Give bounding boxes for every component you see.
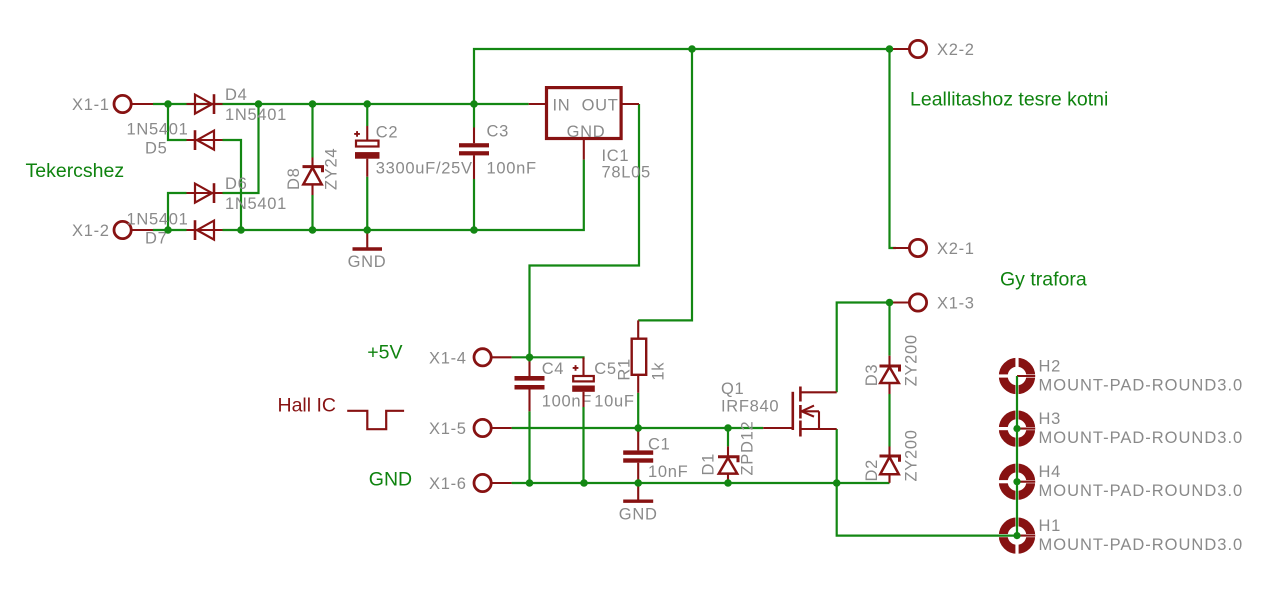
svg-text:ZY24: ZY24 (323, 148, 341, 190)
svg-text:10nF: 10nF (648, 463, 688, 481)
wire X1-1 row to IC IN (153, 103, 529, 105)
svg-text:D7: D7 (145, 230, 168, 248)
wire gate row (512, 427, 764, 429)
svg-text:ZY200: ZY200 (903, 334, 921, 386)
pad X2-1 (893, 239, 927, 256)
svg-text:IRF840: IRF840 (721, 398, 779, 416)
node X1-2 junction (164, 226, 172, 234)
zener D2 ZY200 (880, 447, 900, 483)
zener D1 ZPD12 (718, 446, 738, 483)
svg-text:X1-6: X1-6 (429, 475, 467, 493)
wire D6 cathode up to top row (223, 104, 259, 193)
wire top rail to R1 (638, 49, 692, 320)
wire C2 top (366, 104, 368, 126)
zener D3 ZY200 (880, 356, 900, 394)
wire H2-H1 column (1016, 376, 1018, 536)
svg-text:D8: D8 (285, 168, 303, 191)
svg-text:3300uF/25V: 3300uF/25V (376, 160, 473, 178)
node D5 anode junction (237, 226, 245, 234)
svg-text:IC1: IC1 (602, 147, 630, 165)
svg-text:100nF: 100nF (487, 160, 537, 178)
wire source to H1 (837, 483, 1017, 536)
wire D3 to D2 (888, 394, 890, 447)
node R1 bottom junction (634, 424, 642, 432)
svg-text:MOUNT-PAD-ROUND3.0: MOUNT-PAD-ROUND3.0 (1039, 536, 1244, 554)
svg-text:GND: GND (369, 469, 412, 491)
svg-text:C5: C5 (594, 360, 617, 378)
ground symbol under C2 (353, 230, 383, 249)
mount pad H3 (998, 409, 1036, 447)
capacitor C1 10nF (623, 430, 653, 483)
pad X2-2 (890, 40, 927, 57)
capacitor C3 100nF (459, 128, 489, 180)
node D4 cathode junction (255, 100, 263, 108)
wire C3 bottom (473, 179, 475, 230)
svg-text:ZPD12: ZPD12 (739, 421, 757, 476)
wire D3 top (888, 303, 890, 356)
svg-text:ZY200: ZY200 (903, 429, 921, 481)
svg-text:OUT: OUT (582, 97, 619, 115)
node D8 bottom junction (309, 226, 317, 234)
svg-text:1N5401: 1N5401 (225, 195, 287, 213)
node H3 center junction (1013, 425, 1020, 432)
svg-text:C4: C4 (542, 360, 565, 378)
pulse waveform symbol (347, 411, 404, 429)
pad X1-1 (114, 95, 153, 112)
svg-text:D5: D5 (145, 140, 168, 158)
wire bottom rail right of D7 to IC GND (223, 160, 584, 230)
svg-text:X2-2: X2-2 (937, 41, 975, 59)
svg-text:78L05: 78L05 (602, 164, 651, 182)
svg-text:H1: H1 (1039, 517, 1062, 535)
svg-text:D1: D1 (700, 453, 718, 476)
svg-text:1N5401: 1N5401 (127, 211, 189, 229)
IC1 78L05 box (529, 88, 639, 160)
resistor R1 1k (632, 320, 647, 392)
node source junction (833, 479, 841, 487)
svg-text:X1-2: X1-2 (72, 222, 110, 240)
mount pad H4 (998, 463, 1036, 501)
svg-text:D6: D6 (225, 175, 248, 193)
node C2 top junction (363, 100, 371, 108)
wire C4 top (528, 357, 530, 362)
svg-text:GND: GND (567, 123, 606, 141)
svg-text:H3: H3 (1039, 410, 1062, 428)
node D8 top junction (309, 100, 317, 108)
wire X1-1 to D5 jog (168, 104, 187, 140)
wire C3 top (473, 104, 475, 128)
svg-text:X1-3: X1-3 (937, 295, 975, 313)
svg-text:1N5401: 1N5401 (127, 121, 189, 139)
svg-text:Gy trafora: Gy trafora (1000, 269, 1087, 291)
wire D8 bottom (311, 195, 313, 230)
svg-text:X1-1: X1-1 (72, 96, 110, 114)
diode D7 1N5401 (points left) (187, 220, 223, 240)
svg-text:H4: H4 (1039, 463, 1062, 481)
node C2 bottom junction (363, 226, 371, 234)
node top rail R1 branch (688, 45, 696, 53)
svg-text:X1-4: X1-4 (429, 350, 467, 368)
svg-text:MOUNT-PAD-ROUND3.0: MOUNT-PAD-ROUND3.0 (1039, 482, 1244, 500)
svg-text:Tekercshez: Tekercshez (26, 160, 125, 182)
svg-text:Leallitashoz tesre kotni: Leallitashoz tesre kotni (910, 89, 1108, 111)
wire D1 top (727, 428, 729, 446)
pad X1-6 (474, 474, 512, 491)
node D1 top junction (724, 424, 732, 432)
zener D8 ZY24 (303, 158, 323, 196)
wire top rail (474, 49, 890, 104)
svg-text:MOUNT-PAD-ROUND3.0: MOUNT-PAD-ROUND3.0 (1039, 376, 1244, 394)
transistor Q1 IRF840 (763, 387, 837, 437)
node top rail X2 branch (886, 45, 894, 53)
svg-text:D3: D3 (863, 364, 881, 387)
wire GND row (512, 482, 890, 484)
node H1 center junction (1013, 532, 1020, 539)
node H4 center junction (1013, 478, 1020, 485)
capacitor C5 10uF (polarized) (572, 358, 595, 408)
wire C1 top (637, 428, 639, 432)
svg-text:1k: 1k (650, 362, 668, 381)
svg-text:C3: C3 (487, 123, 510, 141)
svg-text:H2: H2 (1039, 358, 1062, 376)
wire D5 anode down to bottom rail (223, 140, 242, 230)
diode D4 1N5401 (187, 94, 223, 114)
wire R1 bottom to gate row (637, 393, 639, 428)
wire X2-1 drop (890, 49, 897, 248)
svg-text:GND: GND (619, 506, 658, 524)
mount pad H1 (998, 516, 1036, 554)
diode D6 1N5401 (187, 183, 223, 203)
capacitor C2 3300uF/25V (polarized) (354, 126, 379, 177)
svg-text:X1-5: X1-5 (429, 420, 467, 438)
wire source down (836, 429, 838, 483)
pad X1-5 (474, 419, 512, 436)
pad X1-3 (893, 294, 927, 311)
svg-text:C2: C2 (376, 124, 399, 142)
wire drain up to X1-3 (837, 303, 890, 393)
svg-text:10uF: 10uF (594, 393, 634, 411)
svg-text:Q1: Q1 (721, 380, 744, 398)
node C1 bottom junction (634, 479, 642, 487)
wire +5V row (512, 357, 584, 359)
svg-text:D4: D4 (225, 86, 248, 104)
svg-text:Hall IC: Hall IC (278, 395, 337, 417)
pad X1-4 (474, 349, 512, 366)
diode D5 1N5401 (points left) (187, 130, 223, 150)
node X1-1 junction (164, 100, 172, 108)
wire C5 bottom (582, 407, 584, 483)
wire C2 bottom (366, 177, 368, 230)
pad X1-2 (114, 221, 153, 238)
wire D8 column (311, 104, 313, 158)
capacitor C4 100nF (515, 362, 545, 412)
svg-text:R1: R1 (616, 358, 634, 381)
svg-text:D2: D2 (863, 459, 881, 482)
node X1-3 junction (886, 299, 894, 307)
node +5V junction (526, 354, 534, 362)
node C5 bottom junction (580, 479, 588, 487)
mount pad H2 (998, 357, 1036, 395)
wire IC OUT down to +5V node (530, 104, 640, 357)
svg-text:GND: GND (348, 253, 387, 271)
svg-text:+5V: +5V (367, 342, 402, 364)
node D1 bottom junction (724, 479, 732, 487)
svg-text:MOUNT-PAD-ROUND3.0: MOUNT-PAD-ROUND3.0 (1039, 429, 1244, 447)
svg-text:X2-1: X2-1 (937, 240, 975, 258)
node C3 top junction (470, 100, 478, 108)
wire X1-2 to D6 jog (168, 193, 187, 230)
node C3 bottom junction (470, 226, 478, 234)
svg-text:1N5401: 1N5401 (225, 106, 287, 124)
svg-text:C1: C1 (648, 436, 671, 454)
node C4 bottom junction (526, 479, 534, 487)
wire bottom rail (153, 229, 187, 231)
svg-text:IN: IN (553, 97, 571, 115)
ground symbol under C1 (623, 483, 653, 501)
wire C4 bottom (528, 411, 530, 483)
